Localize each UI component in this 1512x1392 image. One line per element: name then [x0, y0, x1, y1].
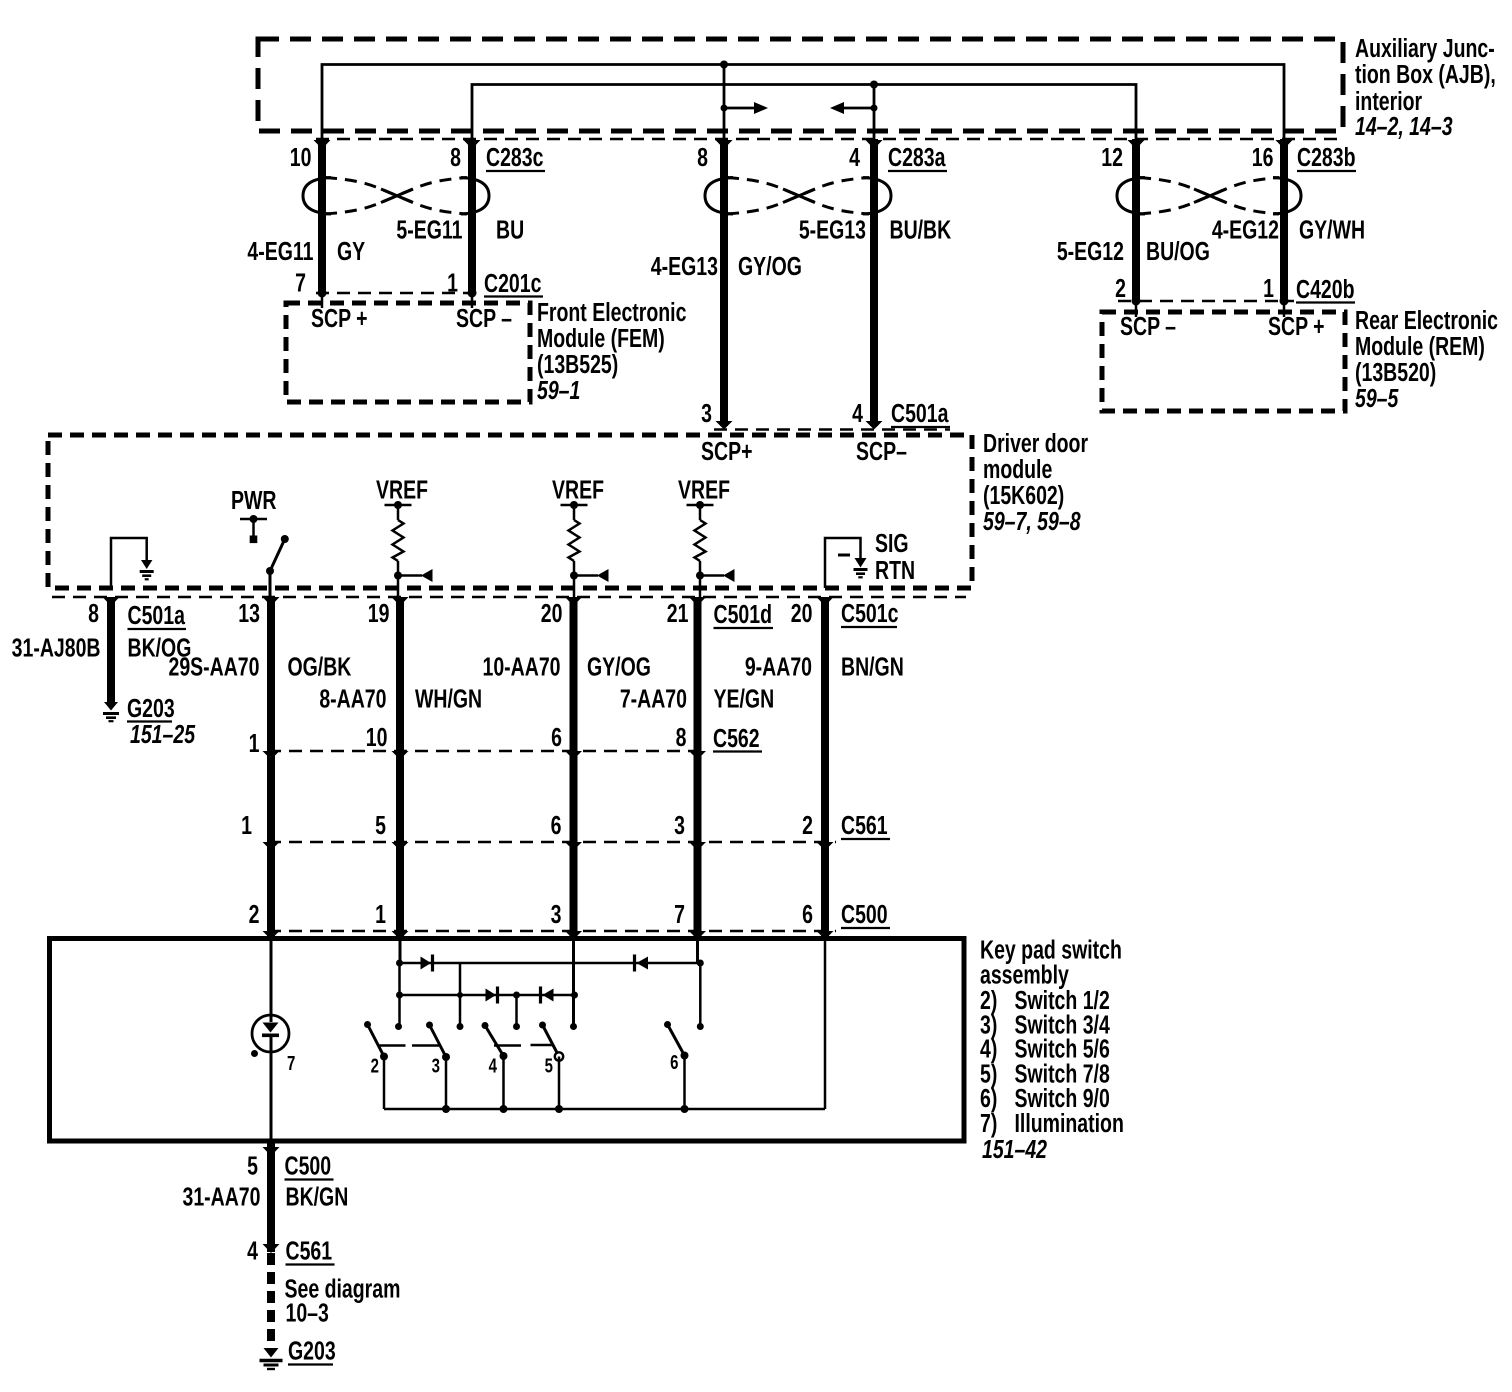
pin arrowhead C561 at x400 [392, 842, 409, 851]
pin number 21 [667, 598, 689, 627]
pin arrowhead C561 at x271 [263, 842, 280, 851]
svg-text:tion Box (AJB),: tion Box (AJB), [1355, 59, 1496, 88]
pin arrowhead C500 at x825 [817, 931, 834, 940]
connector C201c dashed line [316, 292, 482, 295]
svg-text:6: 6 [802, 899, 813, 928]
connector label C561 [841, 810, 890, 839]
pin arrowhead pin 21 C501d [689, 597, 706, 606]
switch 5 label [545, 1054, 553, 1077]
svg-text:10–3: 10–3 [286, 1298, 329, 1327]
wire diode row 1 [396, 960, 704, 967]
wire label 4-EG11 [247, 236, 313, 265]
connector label C283a [888, 142, 947, 171]
svg-text:8-AA70: 8-AA70 [319, 684, 386, 713]
connector label C420b [1296, 274, 1355, 303]
wire label GY/OG (below module) [587, 652, 651, 681]
connector label C500 (bottom) [284, 1151, 333, 1180]
pin arrowhead C561 at x825 [817, 842, 834, 851]
svg-text:3: 3 [551, 899, 562, 928]
keypad legend text [980, 935, 1124, 1164]
svg-text:7: 7 [287, 1052, 295, 1075]
FEM label text [537, 297, 687, 404]
Driver door module label text [983, 428, 1088, 535]
svg-text:5: 5 [545, 1054, 553, 1077]
pin arrowhead pin 20 [565, 597, 582, 606]
wire label BU/OG [1146, 236, 1210, 265]
wire dashed continuation to G203 [267, 1253, 275, 1349]
Rear Electronic Module REM box (dashed) [1102, 312, 1345, 411]
lamp illumination (7) [251, 1015, 289, 1057]
svg-text:21: 21 [667, 598, 689, 627]
wire rail to pin 6 column [824, 941, 827, 1109]
connector label C501a (top) [891, 398, 950, 427]
svg-text:Illumination: Illumination [1015, 1108, 1124, 1137]
svg-text:10: 10 [366, 722, 388, 751]
ground G203 label (bottom) [288, 1336, 336, 1365]
wire 9-AA70 BN/GN (pin 20 C501c to keypad) [821, 600, 829, 941]
junction box AJB enclosure (dashed) [258, 39, 1343, 131]
svg-text:4: 4 [247, 1236, 258, 1265]
svg-text:4: 4 [852, 398, 863, 427]
svg-text:9-AA70: 9-AA70 [745, 652, 812, 681]
pin number 12 (C283b) [1101, 142, 1123, 171]
pin arrowhead C283c pin 10 [314, 140, 331, 149]
wire 4-EG13 GY/OG (C283a-8 to C501a-3) [720, 139, 728, 426]
pin arrowhead SCP+ into module [716, 421, 733, 430]
contact dot switch 4 [513, 1023, 520, 1030]
svg-text:8: 8 [676, 722, 687, 751]
pin number 3 (C500) [551, 899, 562, 928]
svg-text:5-EG12: 5-EG12 [1057, 236, 1124, 265]
pin number 1 (C201c) [447, 268, 458, 297]
pin number 20 [541, 598, 563, 627]
svg-text:2: 2 [1115, 273, 1126, 302]
pin number 4 (C501a top) [852, 398, 863, 427]
node SIG RTN label [875, 528, 915, 584]
Front Electronic Module FEM box (dashed) [286, 303, 530, 402]
svg-text:RTN: RTN [875, 555, 915, 584]
pin number 2 (C420b) [1115, 273, 1126, 302]
switch 2 label [371, 1054, 379, 1077]
pin number 8 (C562) [676, 722, 687, 751]
svg-text:59–5: 59–5 [1355, 383, 1399, 412]
wire row2 tap to switch 4 contact [513, 992, 520, 1027]
node SCP – (FEM) [456, 303, 512, 332]
pin number 6 (C561) [551, 810, 562, 839]
wire 5-EG13 BU/BK (C283a-4 to C501a-4) [870, 139, 878, 426]
wire label 10-AA70 [482, 652, 560, 681]
pin arrowhead SCP- into module [866, 421, 883, 430]
connector C562 dashed line [268, 750, 708, 753]
switch 3 (Switch 3/4) [412, 1022, 450, 1114]
svg-text:G203: G203 [288, 1336, 336, 1365]
twisted pair symbol C283b [1117, 178, 1301, 215]
wire label 5-EG11 [396, 215, 462, 244]
pin number 3 (C501a top) [701, 398, 712, 427]
wire left column row1 to row2 [398, 963, 401, 995]
svg-text:OG/BK: OG/BK [287, 652, 351, 681]
svg-text:Module (REM): Module (REM) [1355, 331, 1485, 360]
switch 6 label [670, 1051, 678, 1074]
pin number 6 (C500) [802, 899, 813, 928]
pin arrowhead C283b pin 16 [1276, 140, 1293, 149]
pin number 2 (C500) [249, 899, 260, 928]
resistor VREF 3 (pin 21) [687, 501, 735, 597]
arrow stub pointing left on SCP- drop [830, 102, 878, 114]
minus sign (SIG RTN) [838, 554, 850, 557]
pin number 20 (C501c) [791, 598, 813, 627]
svg-text:5: 5 [375, 810, 386, 839]
pin dot C420b-1 [1280, 297, 1289, 318]
svg-text:SCP +: SCP + [311, 303, 368, 332]
svg-text:2: 2 [249, 899, 260, 928]
pin number 1 (C420b) [1263, 273, 1274, 302]
REM label text [1355, 305, 1498, 412]
PWR fixed contact [240, 515, 267, 543]
svg-text:8: 8 [697, 142, 708, 171]
pin number 8 (C283c) [450, 142, 461, 171]
svg-text:6: 6 [551, 722, 562, 751]
driver door module bottom connector dashed line [52, 596, 966, 599]
VREF label 3 [678, 475, 730, 504]
svg-text:3: 3 [432, 1054, 440, 1077]
pin number 3 (C561) [674, 810, 685, 839]
svg-text:4: 4 [489, 1054, 497, 1077]
contact dot switch 3 [457, 1023, 464, 1030]
node SCP+ (driver door module) [701, 436, 752, 465]
svg-text:C283b: C283b [1297, 142, 1356, 171]
svg-text:2: 2 [371, 1054, 379, 1077]
svg-text:GY/OG: GY/OG [738, 251, 802, 280]
pin arrowhead C500 pin 5 [263, 1147, 280, 1156]
wire illumination column (bottom) [270, 1036, 273, 1141]
svg-text:YE/GN: YE/GN [713, 684, 774, 713]
pin number 10 (C283c) [290, 142, 312, 171]
svg-text:BU: BU [496, 215, 524, 244]
wire 8-AA70 WH/GN (pin 19 to keypad) [396, 600, 404, 941]
svg-text:12: 12 [1101, 142, 1123, 171]
pin number 7 (C201c) [295, 268, 306, 297]
ground G203 symbol (left) [103, 702, 119, 721]
wire diode row 2 [396, 992, 578, 999]
svg-text:6: 6 [670, 1051, 678, 1074]
svg-text:C501a: C501a [128, 600, 186, 629]
pin number 1 (C500) [375, 899, 386, 928]
connector label C201c [484, 268, 543, 297]
svg-text:1: 1 [375, 899, 386, 928]
svg-text:C201c: C201c [484, 268, 542, 297]
wire common return rail [384, 1108, 825, 1111]
ground symbol (internal, driver door module) [140, 560, 154, 579]
svg-text:C500: C500 [284, 1151, 331, 1180]
svg-text:7: 7 [674, 899, 685, 928]
wire pin7 column to switch 6 contact [698, 941, 701, 1027]
node SCP + (FEM) [311, 303, 368, 332]
svg-text:Driver door: Driver door [983, 428, 1088, 457]
connector label C561 (bottom) [286, 1236, 335, 1265]
pin number 8 (C501a) [88, 598, 99, 627]
wire label 29S-AA70 [168, 652, 259, 681]
svg-text:SCP –: SCP – [456, 303, 512, 332]
ground G203 label (left) [127, 693, 196, 748]
svg-text:SCP–: SCP– [856, 436, 907, 465]
svg-text:10: 10 [290, 142, 312, 171]
wire label 5-EG13 [799, 215, 866, 244]
contact dot switch 6 [697, 1023, 704, 1030]
diode D4 (row 2, pointing left) [541, 987, 554, 1004]
Driver door module box (dashed) [48, 435, 972, 588]
wire 5-EG11 BU (C283c-8 to C201c-1) [468, 139, 476, 293]
twisted pair symbol C283c [303, 178, 489, 215]
svg-text:59–7, 59–8: 59–7, 59–8 [983, 506, 1081, 535]
ground G203 symbol (bottom) [260, 1348, 283, 1369]
svg-text:Front Electronic: Front Electronic [537, 297, 687, 326]
wire row1 tap to switch 3 contact [457, 963, 463, 1027]
svg-text:7-AA70: 7-AA70 [620, 684, 687, 713]
wire label BU/BK [890, 215, 952, 244]
connector C283 row dashed line [316, 138, 1343, 141]
contact dot switch 2 [395, 1023, 402, 1030]
wire internal ground bracket (pin 8) [111, 538, 147, 588]
connector label C500 (top) [841, 899, 890, 928]
wire label GY [337, 236, 365, 265]
svg-text:151–42: 151–42 [982, 1134, 1047, 1163]
ground symbol SIG RTN [854, 558, 868, 577]
svg-text:4-EG12: 4-EG12 [1212, 215, 1279, 244]
wire label BK/OG [128, 633, 192, 662]
VREF label 1 [376, 475, 428, 504]
svg-text:14–2, 14–3: 14–2, 14–3 [1355, 111, 1453, 140]
node SCP + (REM) [1268, 311, 1325, 340]
connector C500 dashed line [268, 930, 836, 933]
switch 5 (Switch 7/8) [531, 1022, 564, 1114]
pin arrowhead C500 at x697.5 [689, 931, 706, 940]
svg-text:WH/GN: WH/GN [415, 684, 482, 713]
switch PWR blade (pin 13) [266, 535, 289, 597]
wire 7-AA70 YE/GN (pin 21 to keypad) [694, 600, 702, 941]
pin number 10 (C562) [366, 722, 388, 751]
pin arrowhead pin 19 [392, 597, 409, 606]
pin arrowhead C562 at x697.5 [689, 751, 706, 760]
connector C501a top dashed line [714, 428, 950, 431]
svg-text:4-EG13: 4-EG13 [651, 251, 718, 280]
svg-text:7): 7) [980, 1108, 997, 1137]
svg-text:C501a: C501a [891, 398, 949, 427]
svg-text:G203: G203 [127, 693, 175, 722]
svg-text:1: 1 [241, 810, 252, 839]
wire pin3 column to switch 5 contact [572, 941, 575, 1027]
svg-text:6: 6 [551, 810, 562, 839]
svg-text:4-EG11: 4-EG11 [247, 236, 313, 265]
wire pin1 column inside keypad [399, 941, 402, 963]
resistor VREF 1 (pin 19) [385, 501, 433, 597]
svg-text:Module (FEM): Module (FEM) [537, 323, 665, 352]
connector label C283b [1297, 142, 1356, 171]
connector label C562 [713, 723, 762, 752]
see diagram note [284, 1274, 400, 1327]
svg-text:19: 19 [368, 598, 390, 627]
svg-text:BN/GN: BN/GN [841, 652, 904, 681]
pin arrowhead C283a pin 4 [866, 140, 883, 149]
svg-text:5: 5 [247, 1151, 258, 1180]
svg-text:PWR: PWR [231, 485, 277, 514]
svg-text:(13B525): (13B525) [537, 349, 618, 378]
Key pad switch assembly box [50, 939, 965, 1142]
wire label 8-AA70 [319, 684, 386, 713]
pin dot C420b-2 [1132, 297, 1141, 318]
wire 31-AA70 BK/GN [267, 1143, 275, 1252]
wire left column row2 to switch 2 contact [398, 995, 401, 1027]
wire label BU [496, 215, 524, 244]
svg-text:C561: C561 [286, 1236, 333, 1265]
node SCP – (REM) [1120, 311, 1176, 340]
svg-text:8: 8 [450, 142, 461, 171]
svg-text:GY/WH: GY/WH [1299, 215, 1365, 244]
svg-text:module: module [983, 454, 1052, 483]
svg-text:VREF: VREF [552, 475, 604, 504]
pin arrowhead C561 at x697.5 [689, 842, 706, 851]
AJB label text [1355, 33, 1496, 140]
svg-text:C501c: C501c [841, 598, 899, 627]
svg-text:SCP +: SCP + [1268, 311, 1325, 340]
svg-text:5-EG11: 5-EG11 [396, 215, 462, 244]
node SCP– (driver door module) [856, 436, 907, 465]
pin number 5 (C500 bottom) [247, 1151, 258, 1180]
svg-text:SCP+: SCP+ [701, 436, 752, 465]
wire label 4-EG12 [1212, 215, 1279, 244]
wire label 9-AA70 [745, 652, 812, 681]
wire illumination column (top) [270, 941, 273, 1022]
connector label C501d [713, 599, 773, 628]
svg-text:13: 13 [238, 598, 260, 627]
switch 4 (Switch 5/6) [482, 1022, 522, 1113]
svg-text:GY: GY [337, 236, 365, 265]
node PWR label [231, 485, 277, 514]
wire 31-AJ80B BK/OG (pin 8 to G203) [107, 600, 115, 702]
wire 10-AA70 GY/OG (pin 20 to keypad) [570, 600, 578, 941]
svg-text:1: 1 [249, 728, 260, 757]
wire label BN/GN [841, 652, 904, 681]
svg-text:SIG: SIG [875, 528, 909, 557]
pin arrowhead C561 at x573.5 [565, 842, 582, 851]
switch 3 label [432, 1054, 440, 1077]
svg-text:(15K602): (15K602) [983, 480, 1064, 509]
pin number 8 (C283a) [697, 142, 708, 171]
pin number 16 (C283b) [1252, 142, 1274, 171]
wire label 31-AA70 [182, 1182, 260, 1211]
svg-text:10-AA70: 10-AA70 [482, 652, 560, 681]
wire label YE/GN [713, 684, 774, 713]
pin arrowhead C500 at x573.5 [565, 931, 582, 940]
svg-text:VREF: VREF [678, 475, 730, 504]
svg-text:4: 4 [849, 142, 860, 171]
pin arrowhead C283a pin 8 [716, 140, 733, 149]
wire drop from SCP- bus to C283a pin 4 [870, 81, 878, 148]
wire SCP- bus inside AJB [472, 85, 1136, 148]
svg-text:C283a: C283a [888, 142, 946, 171]
svg-text:C562: C562 [713, 723, 760, 752]
svg-text:C561: C561 [841, 810, 888, 839]
pin arrowhead C561 pin 4 [263, 1244, 280, 1253]
svg-text:3: 3 [674, 810, 685, 839]
svg-text:BK/GN: BK/GN [286, 1182, 349, 1211]
pin arrowhead C283c pin 8 [464, 140, 481, 149]
pin number 13 [238, 598, 260, 627]
svg-text:(13B520): (13B520) [1355, 357, 1436, 386]
svg-text:1: 1 [1263, 273, 1274, 302]
diode D3 (row 2, pointing right) [486, 987, 498, 1004]
contact dot switch 5 [570, 1023, 577, 1030]
wire 4-EG12 GY/WH (C283b-16 to C420b-1) [1280, 139, 1288, 301]
svg-text:29S-AA70: 29S-AA70 [168, 652, 259, 681]
pin number 1 (C562) [249, 728, 260, 757]
wire label BK/GN [286, 1182, 349, 1211]
pin number 1 (C561) [241, 810, 252, 839]
svg-text:16: 16 [1252, 142, 1274, 171]
svg-text:GY/OG: GY/OG [587, 652, 651, 681]
svg-text:7: 7 [295, 268, 306, 297]
pin number 5 (C561) [375, 810, 386, 839]
pin number 4 (C561 bottom) [247, 1236, 258, 1265]
pin number 6 (C562) [551, 722, 562, 751]
connector C420b dashed line [1118, 300, 1294, 303]
wire label GY/WH [1299, 215, 1365, 244]
wire drop from SCP+ bus to C283a pin 8 [720, 61, 728, 148]
svg-text:BU/OG: BU/OG [1146, 236, 1210, 265]
pin arrowhead C500 at x271 [263, 931, 280, 940]
wire label 5-EG12 [1057, 236, 1124, 265]
connector label C283c [486, 142, 545, 171]
wire label OG/BK [287, 652, 351, 681]
svg-text:151–25: 151–25 [130, 719, 196, 748]
wire SCP+ bus inside AJB [322, 65, 1284, 148]
svg-text:Rear Electronic: Rear Electronic [1355, 305, 1498, 334]
pin arrowhead pin 13 [263, 597, 280, 606]
svg-text:C501d: C501d [713, 599, 772, 628]
VREF label 2 [552, 475, 604, 504]
wire SIG RTN bracket (pin 20 C501c) [825, 538, 861, 588]
diode D1 (row 1, pointing right) [421, 955, 433, 972]
pin arrowhead C283b pin 12 [1128, 140, 1145, 149]
pin dot C201c-7 [318, 289, 327, 309]
pin arrowhead C562 at x573.5 [565, 751, 582, 760]
svg-text:C500: C500 [841, 899, 888, 928]
switch 2 (Switch 1/2) [364, 1021, 406, 1109]
svg-text:8: 8 [88, 598, 99, 627]
wire label 7-AA70 [620, 684, 687, 713]
connector label C501c [841, 598, 899, 627]
wire 4-EG11 GY (C283c-10 to C201c-7) [318, 139, 326, 293]
pin number 19 [368, 598, 390, 627]
svg-text:VREF: VREF [376, 475, 428, 504]
svg-text:31-AA70: 31-AA70 [182, 1182, 260, 1211]
pin dot C201c-1 [468, 289, 477, 309]
lamp label 7 [287, 1052, 295, 1075]
twisted pair symbol C283a [705, 178, 891, 215]
svg-text:C283c: C283c [486, 142, 544, 171]
svg-text:59–1: 59–1 [537, 375, 580, 404]
svg-text:2: 2 [802, 810, 813, 839]
svg-text:5-EG13: 5-EG13 [799, 215, 866, 244]
svg-text:BU/BK: BU/BK [890, 215, 952, 244]
svg-text:20: 20 [791, 598, 813, 627]
wire label GY/OG [738, 251, 802, 280]
svg-text:31-AJ80B: 31-AJ80B [12, 633, 101, 662]
pin arrowhead C500 at x400 [392, 931, 409, 940]
pin arrowhead C562 at x400 [392, 751, 409, 760]
svg-text:C420b: C420b [1296, 274, 1355, 303]
pin number 7 (C500) [674, 899, 685, 928]
